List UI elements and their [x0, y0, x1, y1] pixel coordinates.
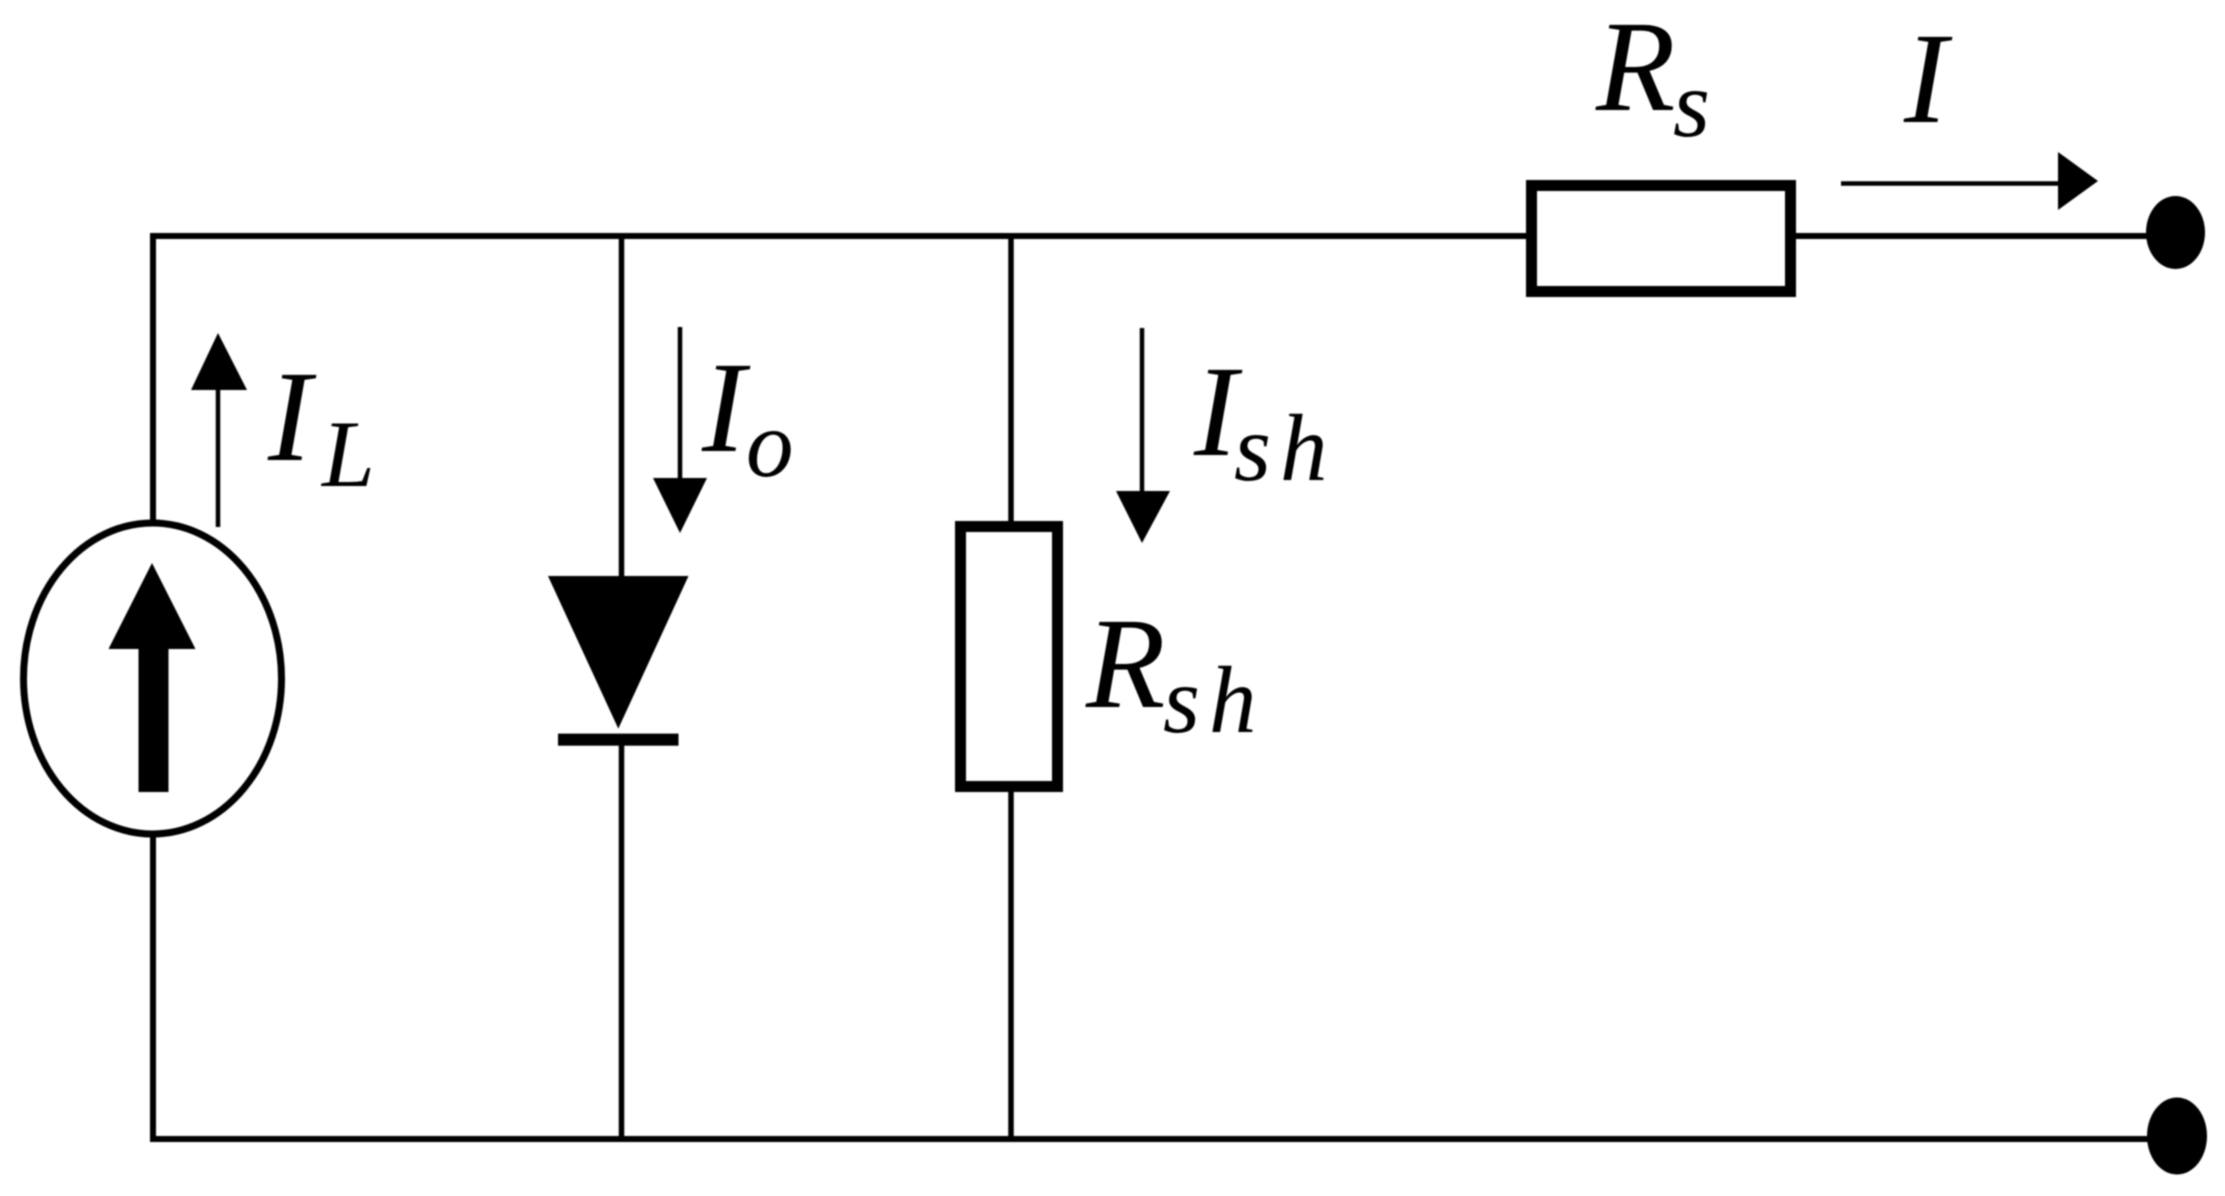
svg-text:R: R [1595, 0, 1675, 139]
wire left branch upper segment [150, 233, 156, 523]
svg-text:o: o [746, 391, 794, 497]
wire bottom bus [150, 1136, 2148, 1142]
wire Rsh branch upper segment [1008, 233, 1014, 526]
svg-text:I: I [701, 336, 751, 480]
label Rs [1595, 0, 1710, 157]
label IL [267, 345, 375, 507]
arrow Ish [1116, 328, 1170, 543]
arrow IL [191, 333, 247, 527]
svg-text:s: s [1673, 51, 1710, 157]
resistor Rs [1532, 186, 1791, 292]
node terminal bottom [2147, 1098, 2207, 1175]
label Io [701, 336, 794, 497]
wire diode branch upper segment [619, 233, 625, 580]
label Ish [1193, 340, 1336, 501]
svg-text:sh: sh [1163, 647, 1265, 753]
label Rsh [1085, 592, 1265, 753]
resistor Rsh [961, 527, 1058, 787]
node terminal top [2146, 196, 2205, 269]
current source IL [24, 523, 282, 834]
svg-text:I: I [267, 345, 317, 489]
wire top bus [150, 233, 2147, 239]
svg-text:sh: sh [1234, 395, 1336, 501]
arrow Io [653, 327, 707, 533]
diode D1 [548, 576, 689, 746]
wire Rsh branch lower segment [1008, 787, 1014, 1142]
arrow I output [1841, 152, 2098, 210]
svg-text:I: I [1903, 7, 1953, 151]
wire diode branch lower segment [619, 740, 625, 1142]
svg-text:L: L [320, 401, 375, 507]
svg-text:R: R [1085, 592, 1165, 736]
wire left branch lower segment [150, 834, 156, 1142]
